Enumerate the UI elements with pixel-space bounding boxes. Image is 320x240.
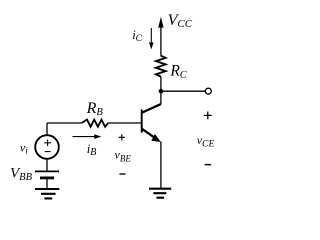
terminal open circle xyxy=(205,88,211,94)
battery VBB long plate xyxy=(35,170,59,172)
wire RB to base xyxy=(108,122,141,124)
wire source bottom xyxy=(46,159,48,171)
resistor RC xyxy=(156,56,166,77)
transistor Q1 collector lead xyxy=(142,104,161,113)
battery VBB short plate xyxy=(40,176,54,179)
wire collector node to terminal xyxy=(161,90,205,92)
label minus vCE xyxy=(205,164,212,166)
wire base horizontal from source to R_B xyxy=(47,122,82,124)
ground left xyxy=(35,189,59,198)
wire emitter vertical xyxy=(160,142,162,189)
wire RC bottom xyxy=(160,77,162,92)
label plus vCE xyxy=(204,112,212,120)
label minus vBE xyxy=(119,173,125,175)
arrow VCC xyxy=(158,17,163,28)
source vi circle xyxy=(35,135,59,159)
wire battery to ground xyxy=(46,179,48,189)
junction dot collector node xyxy=(159,89,164,94)
plus in source xyxy=(44,140,51,147)
current arrow iC xyxy=(150,28,152,45)
transistor Q1 base bar xyxy=(141,109,143,132)
resistor RB xyxy=(82,120,108,127)
label plus vBE xyxy=(119,134,125,140)
current arrow iB xyxy=(73,136,98,138)
transistor Q1 emitter lead with arrow xyxy=(142,129,156,139)
wire VCC vertical xyxy=(160,27,162,56)
wire collector vertical xyxy=(160,91,162,104)
minus in source xyxy=(45,151,51,153)
wire source top vertical xyxy=(46,123,48,135)
ground right xyxy=(149,189,171,198)
